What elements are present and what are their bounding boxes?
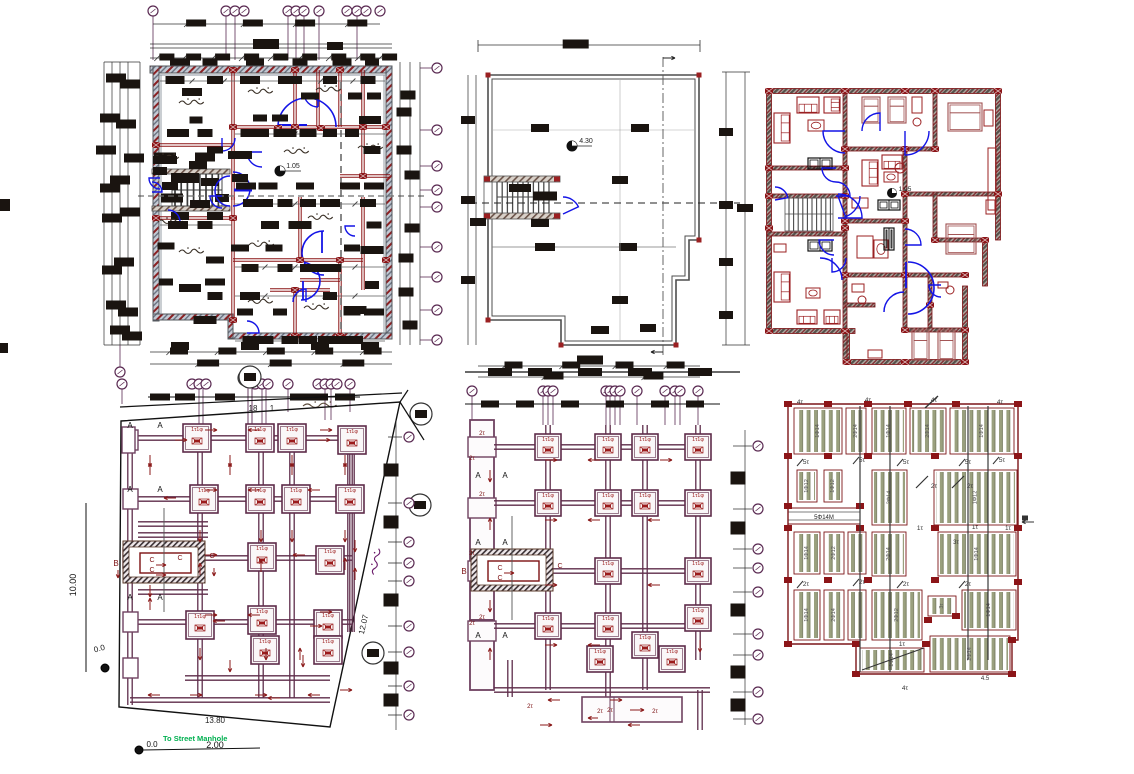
door furnished D6 [819,240,834,255]
footing G16 [659,646,685,672]
svg-text:2Φ14: 2Φ14 [925,424,931,438]
section arrow [660,459,672,461]
strip footing marks [468,437,496,457]
beam row y438 [130,435,352,437]
column mark [1014,579,1022,585]
level marker 1.05 (furnished) [888,189,897,198]
interior wall w2 [154,143,233,145]
svg-text:A: A [502,471,508,480]
interior wall w19 [293,290,295,338]
svg-text:5τ: 5τ [803,459,810,466]
interior wall w20 [361,260,363,290]
svg-text:2Φ12: 2Φ12 [894,608,900,622]
section arrow [199,563,201,575]
svg-text:1τ1φ: 1τ1φ [256,609,268,615]
column mark [864,577,872,583]
footing G15 [587,646,613,672]
svg-text:1Φ14: 1Φ14 [979,424,985,438]
section arrow [545,584,557,586]
svg-text:1τ1φ: 1τ1φ [542,493,554,499]
slab panel P10 [794,532,820,574]
footing F9 [248,543,276,571]
kitchen counter right [988,148,996,210]
outer wall left [153,66,159,321]
svg-text:A: A [475,471,481,480]
beams [545,425,547,690]
beam column x292 [289,430,291,698]
column mark [864,401,872,407]
svg-text:A: A [127,593,133,602]
section arrow [199,648,201,660]
svg-text:A: A [502,538,508,547]
level marker 4.30 [567,141,577,151]
section arrow [588,644,600,646]
diagonal slash top [925,396,938,408]
section arrow [268,697,280,699]
footing G4 [685,434,711,460]
edge footing left y668 [123,658,138,678]
svg-text:C: C [557,563,562,570]
svg-text:1τ1φ: 1τ1φ [259,639,271,645]
interior wall w11 [231,197,233,320]
section arrow [545,519,557,521]
drawing 4: foundation plan with plot [68,366,432,754]
svg-text:1Φ14: 1Φ14 [804,546,810,560]
section arrow [610,699,622,701]
inner dim row 2 [235,133,385,135]
outer wall bottom left [153,314,233,320]
bottom extension bottom [847,360,967,365]
outer wall right [386,66,392,338]
section arrow [340,689,352,691]
section arrow [699,640,701,652]
door D8 [293,289,306,302]
corner mark [559,343,564,348]
footing F1 [183,424,211,452]
grid bubbles right (drawing 1) [420,67,432,69]
svg-text:C: C [149,557,154,564]
big door fan right of stair [233,172,250,206]
svg-text:1τ1φ: 1τ1φ [290,488,302,494]
margin mark right of d6 [1022,521,1034,523]
footing F13 [314,610,342,638]
big arc right of stair [838,194,862,218]
section arrow [149,455,151,467]
interior wall f11 [935,238,985,242]
svg-text:2Φ14: 2Φ14 [853,424,859,438]
svg-text:1Φ14: 1Φ14 [986,603,992,617]
svg-text:2τ: 2τ [469,551,475,557]
slab panel P15b [848,590,866,640]
section arrow [265,648,267,660]
beam line v2 [889,406,891,672]
svg-text:2τ: 2τ [652,709,658,715]
interior wall f5 [845,147,935,151]
beds bottom extension [912,330,929,360]
interior wall f2 [767,166,845,170]
slab panel P20 [930,636,1010,672]
section arrow [344,530,346,542]
inner face line top [159,74,386,76]
interior wall w18 [270,288,330,290]
interior wall w4 [293,70,295,127]
section arrow [489,600,491,612]
section arrow [229,660,231,672]
staircase (furnished) [785,198,833,231]
top partial dim line [465,371,740,373]
bed room 3 (big) [948,103,982,131]
footing F7 [282,485,310,513]
column mark [824,401,832,407]
slab panel P14 [794,590,820,640]
footing G10 [685,558,711,584]
interior wall f9 [905,192,998,196]
bottom section marker [238,370,254,386]
small door arc above fan [304,93,318,107]
dimension line top 1 [153,23,380,25]
kitchen fixtures right [986,200,995,214]
svg-text:4τ: 4τ [997,399,1004,406]
svg-text:1τ1φ: 1τ1φ [692,437,704,443]
section arrow [291,530,293,542]
red junction marks furnished [765,88,773,94]
svg-text:1τ1φ: 1τ1φ [286,427,298,433]
svg-text:C: C [177,555,182,562]
footing F3 [278,424,306,452]
beam row y499 [130,496,352,498]
svg-text:0.0: 0.0 [146,740,158,749]
svg-text:2τ: 2τ [479,492,485,498]
svg-text:A: A [502,631,508,640]
beam line v1 [859,406,861,672]
edge footing left y440 [123,430,138,450]
corner mark [697,238,702,243]
interior wall w1 [231,70,233,145]
svg-text:1τ: 1τ [1005,526,1011,532]
footing G9 [595,558,621,584]
edge footing left y499 [123,489,138,509]
diagonal line across bottom panel [862,648,924,670]
section arrow [540,724,552,726]
svg-text:A: A [475,538,481,547]
slab panel P15 [824,590,844,640]
interior wall f6 [933,91,937,151]
section arrow [489,648,491,660]
interior wall f16 [905,328,965,332]
interior wall w13 [300,258,363,260]
door D6 [247,321,259,333]
svg-text:1τ1φ: 1τ1φ [198,488,210,494]
svg-text:4τ: 4τ [902,685,909,692]
footing F5 [190,485,218,513]
section arrow [489,470,491,482]
column mark [922,641,930,647]
svg-text:0.0: 0.0 [93,643,107,655]
svg-text:1τ1φ: 1τ1φ [692,561,704,567]
slab panel P19 [860,648,924,672]
interior wall f4 [767,232,845,236]
slab outline [788,404,1018,674]
svg-text:2.00: 2.00 [206,740,224,750]
svg-text:13.80: 13.80 [205,716,226,725]
edge footing left y558 [123,548,138,568]
ridge line 2 [492,129,695,131]
svg-text:1Φ12: 1Φ12 [804,479,810,493]
column mark [784,525,792,531]
footing F6 [246,485,274,513]
svg-text:5τ: 5τ [903,459,910,466]
svg-text:2τ: 2τ [479,431,485,437]
section arrow [229,463,231,475]
interior wall f10 [933,194,937,240]
column mark [784,641,792,647]
svg-text:2τ: 2τ [469,456,475,462]
slab panel P6 [797,470,817,502]
section arrow [489,518,491,530]
outer wall bottom [228,333,392,339]
section arrow [248,489,260,491]
door furnished D3 [862,113,880,131]
staircase (roof) [484,176,560,182]
vertical line [619,79,621,341]
door D3 [168,210,180,222]
room label living [284,149,309,153]
svg-text:1τ: 1τ [917,525,924,532]
stair door arc [563,197,578,214]
column mark [1008,637,1016,643]
inner dim row 7 [235,340,385,342]
dimension lines left of roof [467,75,469,345]
svg-text:1τ1φ: 1τ1φ [639,437,651,443]
svg-text:1Φ14: 1Φ14 [804,608,810,622]
interior dimension blobs [166,76,185,84]
slab panel P1b [846,408,866,454]
dining center bottom [857,236,873,258]
outer wall left [767,91,772,333]
drawing 2: roof plan [461,40,753,381]
svg-text:10.00: 10.00 [68,574,78,597]
room below stairs furniture [808,240,832,251]
inner dim row 5 [235,266,385,268]
section arrow [149,598,151,610]
slab panel P8 [872,470,907,525]
interior wall f14 [905,273,965,277]
interior wall f17 [845,303,875,307]
svg-text:4.30: 4.30 [579,138,593,145]
slab panel P11 [824,532,844,574]
left measures [85,503,87,672]
footing G3 [632,434,658,460]
dimension lines right [399,62,401,345]
svg-text:4τ: 4τ [797,399,804,406]
column mark [952,401,960,407]
column mark [852,671,860,677]
section arrow [648,519,660,521]
svg-text:1τ1φ: 1τ1φ [344,488,356,494]
interior wall f7 [903,149,907,221]
svg-text:1: 1 [270,404,275,413]
svg-text:A: A [127,485,133,494]
footing G12 [595,613,621,639]
door furnished D4 [822,168,836,182]
grid bubbles top (drawing 1) [148,6,158,16]
section arrow [628,724,640,726]
interior wall f13 [903,221,907,330]
interior wall w16 [338,260,340,338]
section arrow [320,611,332,613]
svg-text:2τ: 2τ [931,483,938,490]
edge footing top-left tall [122,427,135,453]
door D7 [345,226,355,236]
footing G5 [535,490,561,516]
door D4 [210,196,222,208]
corner mark [486,73,491,78]
double door fan lower [301,262,320,300]
inner face line left [160,75,162,314]
drawing 5: foundation plan 2 [461,356,763,731]
svg-text:1Φ14: 1Φ14 [815,424,821,438]
svg-text:1τ1φ: 1τ1φ [639,635,651,641]
slab panel P3 [872,408,906,454]
small arc near stair hall [820,258,842,280]
svg-text:1τ1φ: 1τ1φ [191,427,203,433]
room label hall [154,155,179,159]
column mark [824,577,832,583]
footing F12 [248,606,276,634]
section arrow [149,585,151,597]
column mark [931,525,939,531]
column mark [852,641,860,647]
wall segment bottom step [228,318,233,338]
grid bubbles top (drawing 4) [117,379,127,389]
svg-text:1Φ14: 1Φ14 [974,547,980,561]
mini beams below tank [138,589,208,591]
right grid bubbles (drawing 5) [744,430,746,725]
section arrow [648,584,660,586]
room label kitchen2 [248,299,273,303]
interior wall w14 [361,197,363,260]
bottom extension left [845,331,850,364]
slab panel P17 [928,596,956,616]
footing G13 [632,632,658,658]
section arrow [164,497,176,499]
footing G8 [685,490,711,516]
beam column x200 [197,430,199,698]
margin mark left 2 [0,343,8,353]
wardrobe room1 [808,158,832,169]
section arrow [293,554,305,556]
beam line v3 [967,406,969,660]
interior wall w17 [233,258,300,260]
svg-text:C: C [497,575,502,582]
perimeter beam left (wide strip) [470,420,494,620]
fence label arabic [303,403,337,407]
dimension lines right of roof [725,72,727,345]
section arrow [302,655,304,667]
butterfly door fan bottom center [908,262,934,314]
section arrow [318,439,330,441]
living furniture center [862,160,878,186]
door furnished D9 [775,187,788,200]
bed room 4 (right-mid) [946,224,976,254]
section arrow [548,699,560,701]
door D9 [152,182,162,192]
dimension lines bottom [150,351,392,353]
roof outline inner [492,79,695,341]
interior wall f12 [845,273,905,277]
beam column x261 [258,430,260,698]
slab panel P13 [938,532,1016,576]
perimeter beams [127,427,129,705]
room label bath [158,219,183,223]
room label bed4 [304,305,329,309]
svg-text:1τ1φ: 1τ1φ [594,649,606,655]
section arrow [205,554,217,556]
column mark [1008,671,1016,677]
svg-text:2τ: 2τ [469,621,475,627]
column mark [952,613,960,619]
room label bed3 [308,215,333,219]
svg-text:B: B [461,567,466,576]
column mark [931,577,939,583]
svg-text:1Φ12: 1Φ12 [830,479,836,493]
interior wall w9 [231,145,233,200]
footing G6 [595,490,621,516]
section arrow [229,455,231,467]
svg-text:4.5: 4.5 [981,676,990,682]
svg-text:1τ1φ: 1τ1φ [692,608,704,614]
svg-text:2τ: 2τ [597,709,603,715]
section arrow [354,540,356,552]
section arrow [260,560,262,572]
beam row y622 [130,619,352,621]
section arrow [320,429,332,431]
svg-text:1Φ12: 1Φ12 [973,491,979,505]
blue door leaf on landing [234,189,252,192]
wc right bottom [946,286,954,294]
footing G14 [685,605,711,631]
section arrow [205,489,217,491]
door D5 [149,178,160,189]
section arrow [199,530,201,542]
rotated labels right [369,548,381,575]
margin mark left 1 [0,199,10,211]
inner face line right [383,75,385,333]
room label bed [248,89,273,93]
interior wall f15 [928,275,932,330]
section arrow [255,694,267,696]
mini beams above tank [138,521,208,523]
section arrow [248,614,260,616]
section marker circle bottom [362,642,384,664]
svg-text:A: A [475,631,481,640]
slab panel P5 [950,408,1014,454]
svg-text:C: C [497,565,502,572]
svg-text:2τ: 2τ [527,704,533,710]
room label kitchen [358,145,383,149]
section arrow [190,694,202,696]
svg-text:2τ: 2τ [967,483,974,490]
column mark [784,503,792,509]
plot boundary [119,402,400,727]
dim dashes [465,403,720,405]
svg-text:3τ: 3τ [953,540,959,546]
svg-text:1Φ14: 1Φ14 [886,424,892,438]
section arrow [175,439,187,441]
section arrow [308,694,320,696]
svg-text:C: C [149,567,154,574]
interior wall w10 [154,216,233,218]
